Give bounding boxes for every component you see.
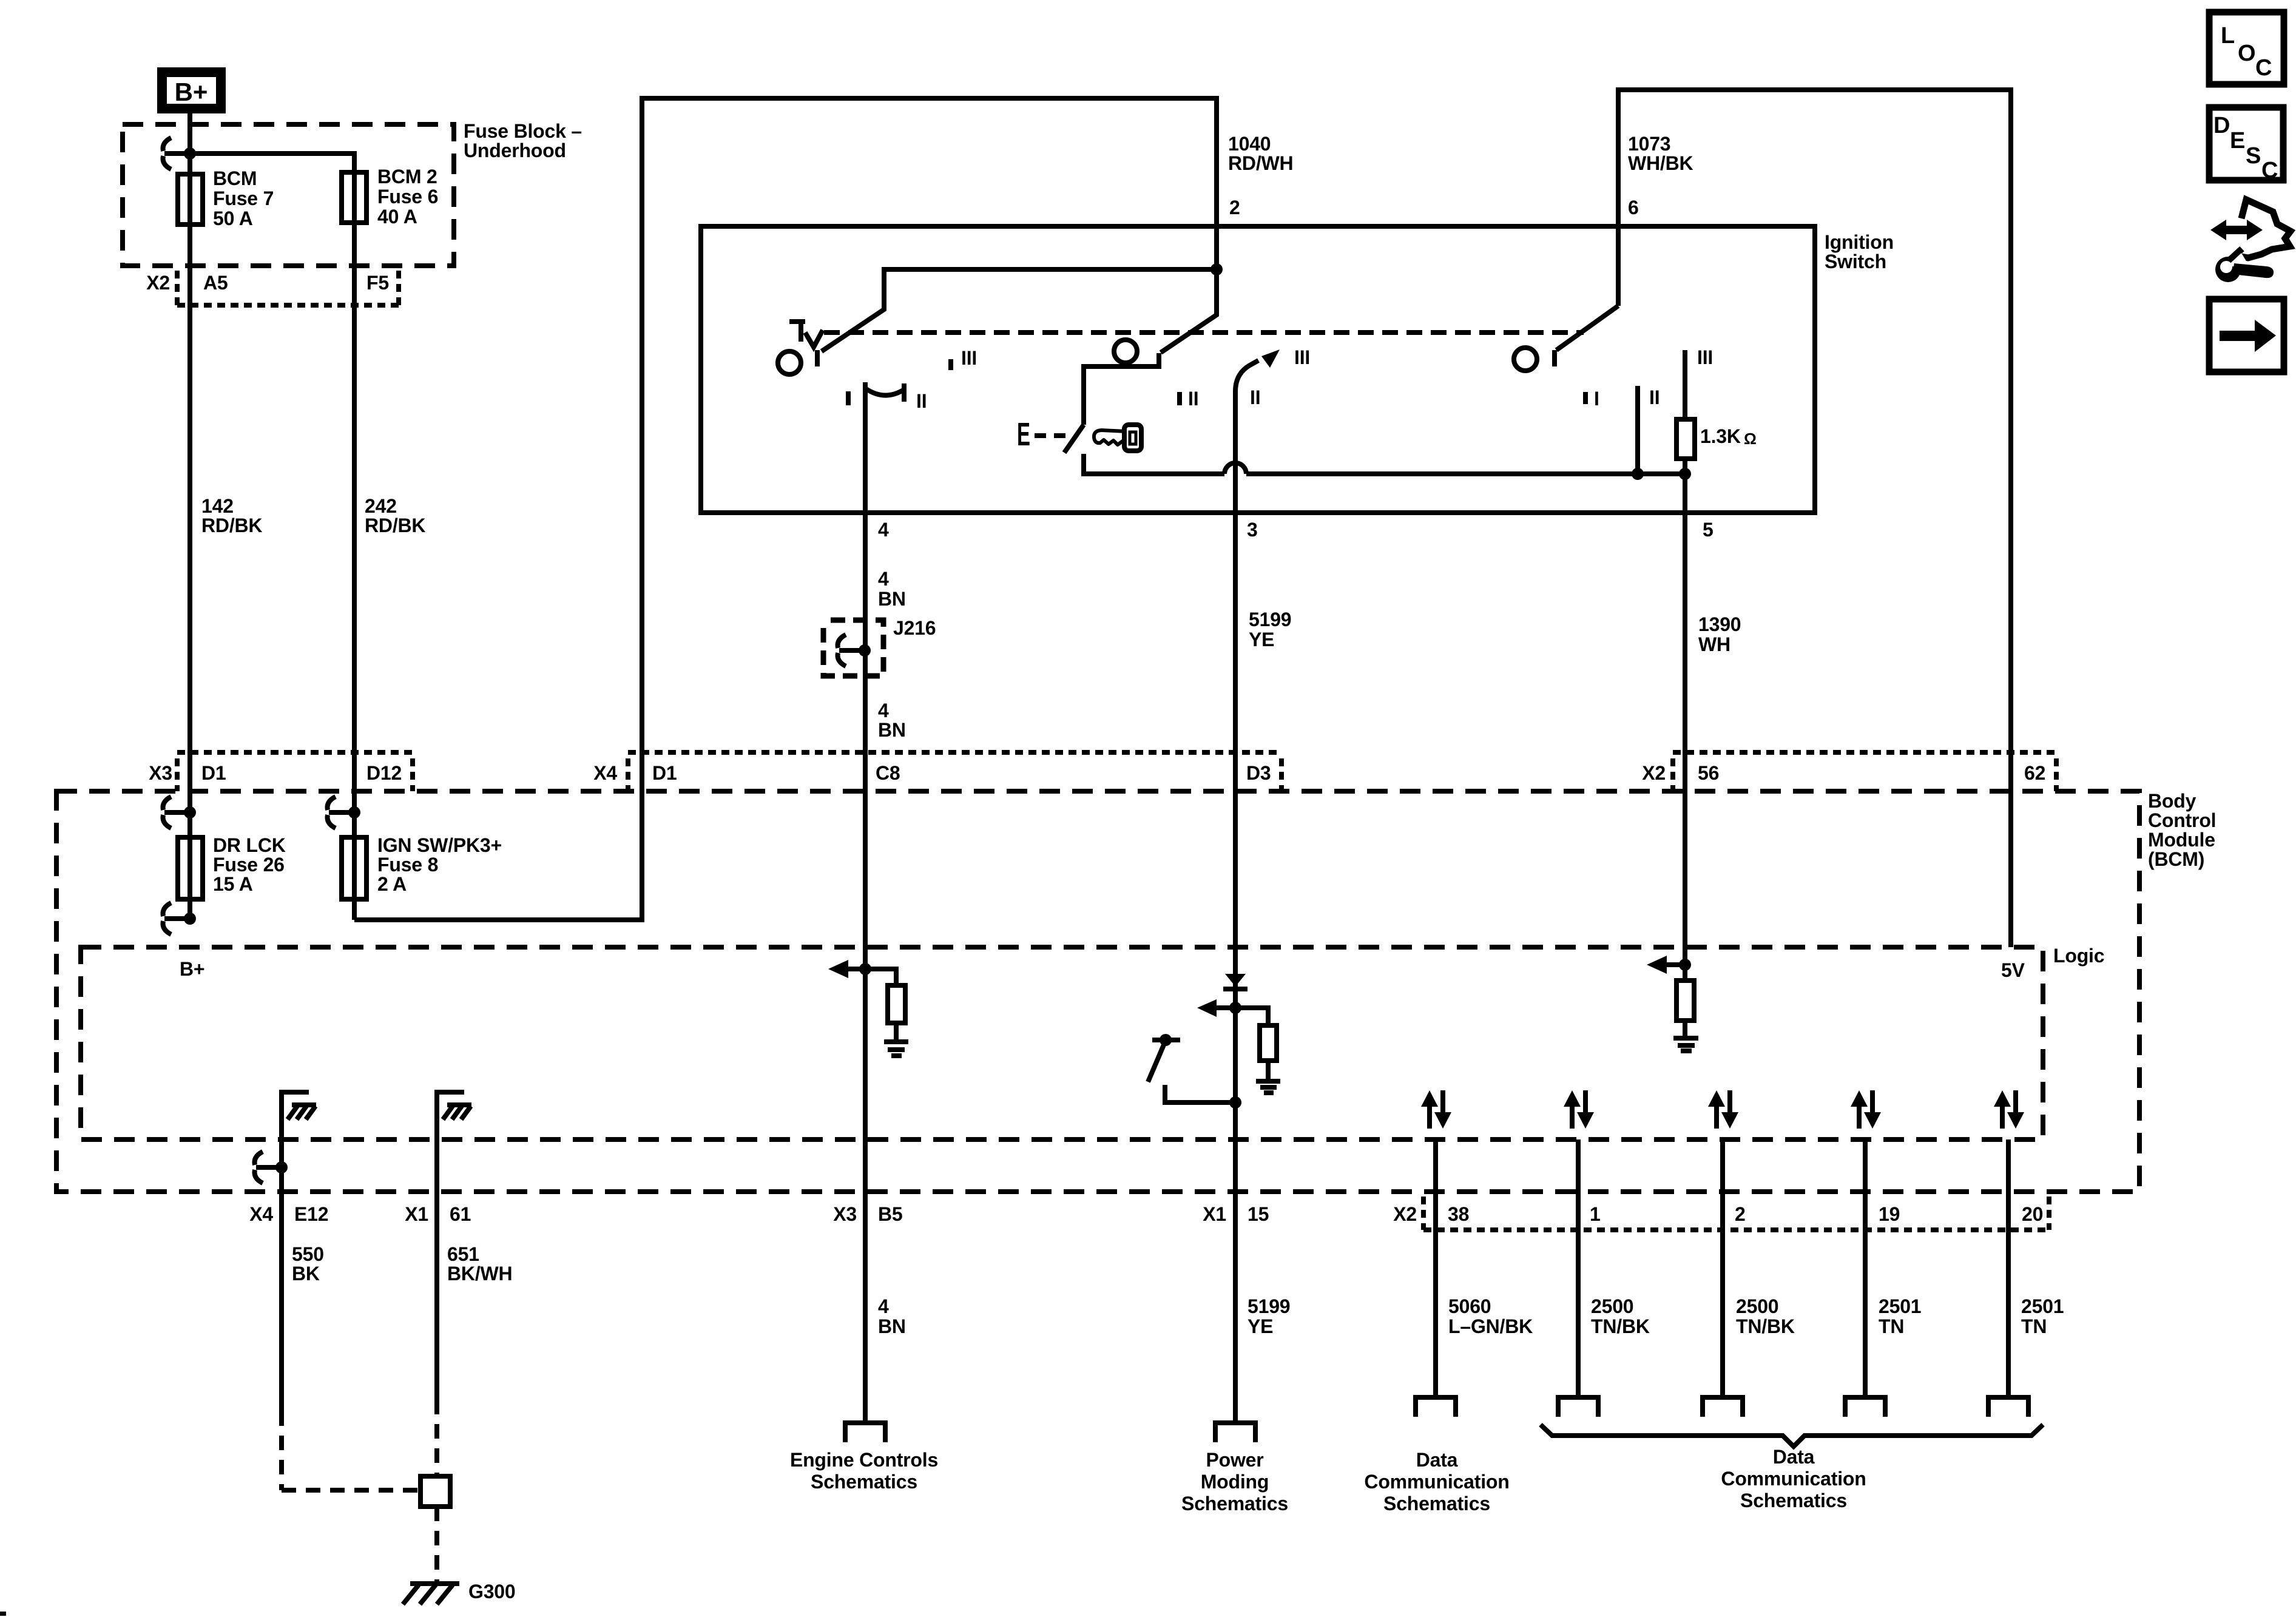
wire B+ to fuse block and down to BCM (circuit 142) [187,113,192,919]
wire ignition switch pin 6 loop to BCM pin 62 (circuit 1073) [1618,90,2011,947]
svg-text:1390: 1390 [1698,613,1741,635]
key icon [1094,425,1141,451]
svg-text:2: 2 [1735,1203,1746,1225]
svg-text:BCM: BCM [213,167,257,189]
svg-text:Power: Power [1206,1449,1263,1471]
svg-text:Fuse 26: Fuse 26 [213,854,285,876]
svg-text:RD/WH: RD/WH [1228,152,1293,174]
off-page connector wire 2 [1703,1397,1743,1417]
svg-text:BN: BN [878,719,906,741]
svg-text:Switch: Switch [1825,251,1886,272]
label Fuse Block Underhood [464,120,582,161]
svg-text:Fuse 6: Fuse 6 [377,186,438,208]
svg-text:X2: X2 [146,272,170,294]
svg-text:X4: X4 [249,1203,273,1225]
icon LOC box [2209,12,2284,84]
svg-text:B+: B+ [175,78,208,106]
bidirectional data arrows pin 20 [1994,1090,2024,1129]
switch S3 arm from wire 6 [1556,306,1618,350]
svg-text:III: III [1697,346,1713,368]
svg-text:Schematics: Schematics [1181,1493,1288,1514]
wire label 1390 WH [1698,613,1741,655]
clip and node above DR LCK fuse [163,797,196,828]
svg-text:III: III [961,347,977,369]
svg-text:X2: X2 [1642,762,1666,784]
svg-text:Fuse 8: Fuse 8 [377,854,438,876]
label Data Communication Schematics (pin 38) [1364,1449,1509,1514]
logic input arrow on wire 4 (pin C8) [828,960,871,978]
svg-text:BN: BN [878,588,906,610]
svg-text:50 A: 50 A [213,208,253,229]
node junction dot resistor on bus [1679,468,1691,480]
svg-text:C: C [2261,158,2278,183]
svg-text:I: I [1594,388,1599,410]
switch S1 fixed contact [815,350,820,366]
switch S1 pivot circle [778,351,801,374]
fuse F6 BCM 2 40A [342,166,438,228]
wire label 142 RD/BK [201,495,262,536]
svg-text:E: E [1017,416,1030,453]
label Data Communication Schematics (serial data) [1721,1446,1866,1511]
position detent arc I-II (S1) [865,382,904,405]
svg-text:C: C [2255,55,2272,81]
node junction dot at B+ branch [184,147,196,160]
label Power Moding Schematics [1181,1449,1288,1514]
fuse F7 BCM 50A [178,167,274,229]
svg-text:IGN SW/PK3+: IGN SW/PK3+ [377,834,502,856]
wire 5 (circuit 1390) down through BCM pin 56 to logic [1683,474,1687,981]
svg-text:D1: D1 [652,762,677,784]
ground (logic, pin 61 wire) [437,1092,471,1139]
svg-text:F5: F5 [366,272,389,294]
svg-text:WH/BK: WH/BK [1628,152,1693,174]
svg-text:Moding: Moding [1201,1471,1269,1493]
ground (logic, wire 4 resistor) [884,1042,908,1056]
svg-text:Communication: Communication [1721,1468,1866,1490]
wire label 5060 L-GN/BK [1448,1295,1533,1337]
svg-text:19: 19 [1879,1203,1900,1225]
wire pin E12 (circuit 550 BK) [282,1139,420,1490]
wire label 1073 WH/BK [1628,133,1693,174]
svg-text:Engine Controls: Engine Controls [790,1449,938,1471]
logic input arrow on wire 5 (pin 56) [1647,956,1691,974]
position label I (S1) [846,391,851,405]
svg-text:Data: Data [1773,1446,1815,1468]
wire pin 20 (circuit 2501) [2006,1139,2011,1396]
svg-text:B5: B5 [878,1203,903,1225]
wire pin 1 (circuit 2500) [1576,1139,1581,1396]
svg-text:Ω: Ω [1744,430,1757,448]
switch S2 pivot circle [1114,340,1137,363]
connector X2 of BCM (pins 56 62) [1642,752,2056,791]
svg-text:C8: C8 [876,762,900,784]
fuse block underhood dashed box [123,124,454,266]
wire label 2500 TN/BK (pin 2) [1736,1295,1795,1337]
svg-text:RD/BK: RD/BK [201,515,262,536]
svg-text:D: D [2213,113,2230,138]
wire resistor to bus [1683,459,1687,474]
svg-text:A5: A5 [203,272,228,294]
svg-text:62: 62 [2024,762,2045,784]
svg-text:YE: YE [1248,1315,1273,1337]
wire 3 (START feed) down through BCM to Power Moding [1233,396,1238,1423]
svg-text:BN: BN [878,1315,906,1337]
svg-text:TN: TN [1879,1315,1904,1337]
svg-text:242: 242 [365,495,397,517]
svg-text:Body: Body [2148,790,2196,812]
svg-text:S: S [2246,143,2261,169]
label Engine Controls Schematics [790,1449,938,1493]
svg-text:15: 15 [1248,1203,1269,1225]
switch S2 fixed contact [1156,353,1161,369]
node junction dot II post on bus [1632,468,1644,480]
off-page connector wire 20 [1988,1397,2028,1417]
svg-text:J216: J216 [893,617,936,639]
connector X2 of BCM bottom (pins 38 1 2 19 20) [1393,1197,2049,1230]
wire from Fuse 8 looping up to ignition switch pin 2 (circuit 1040) [354,98,1217,920]
svg-text:D12: D12 [366,762,402,784]
ignition switch box [701,226,1815,513]
wire 4 (circuit 4 BN) from S1 position II down through BCM to Engine Controls [863,400,868,1423]
svg-text:D1: D1 [201,762,226,784]
wire pin 61 (circuit 651 BK/WH) [434,1139,439,1582]
pull-down resistor on wire 5 [1676,981,1694,1036]
ground (logic, wire 5 resistor) [1673,1038,1698,1051]
svg-text:6: 6 [1628,197,1639,218]
connector X3 of BCM (pins D1 D12) [149,752,413,791]
svg-text:Ignition: Ignition [1825,231,1894,253]
wire label 651 BK/WH [447,1243,512,1284]
svg-text:61: 61 [450,1203,471,1225]
svg-text:II: II [1649,387,1660,408]
svg-text:X1: X1 [1203,1203,1226,1225]
off-page connector wire 5199 [1215,1423,1255,1442]
wire S2 contact to key switch [1084,366,1159,425]
svg-text:Schematics: Schematics [1740,1490,1847,1511]
resistor 1.3K ohm [1676,419,1757,459]
icon service glove with arrow and wrench [2210,200,2291,282]
wire label 4 BN (lower) [878,700,906,741]
pull-down resistor on wire 3 [1235,1008,1277,1079]
wire label 5199 YE [1249,609,1291,650]
svg-text:BK: BK [292,1263,320,1284]
svg-text:1: 1 [1590,1203,1601,1225]
splice J216 [823,617,936,676]
pin label X3 B5 [833,1203,902,1225]
II bus to switch S3 [1246,471,1685,476]
clip and node on pin E12 wire [255,1152,288,1183]
clip and node above Fuse 8 [328,797,360,828]
battery positive terminal B+ box [162,72,221,109]
internal switch to wire 3 [1148,1034,1241,1109]
position label III (S2) with spring-return arrow on wire 3 [1235,346,1310,402]
pin label X1 15 [1203,1203,1269,1225]
svg-text:2: 2 [1229,197,1240,218]
connector X2 of fuse block (pins A5 F5) [146,271,399,305]
svg-text:X1: X1 [405,1203,428,1225]
svg-text:5: 5 [1703,519,1714,541]
position label II (S2 left) [1180,388,1198,410]
wire label 4 BN (bottom) [878,1295,906,1337]
wire label 4 BN (upper) [878,568,906,610]
svg-text:Control: Control [2148,809,2216,831]
wire label 242 RD/BK [365,495,425,536]
svg-text:B+: B+ [180,958,204,980]
svg-text:5199: 5199 [1249,609,1291,630]
wire label 1040 RD/WH [1228,133,1293,174]
pin label X1 61 [405,1203,471,1225]
key switch blade (open) [1064,425,1084,453]
ground (logic, wire 3 resistor) [1256,1081,1280,1093]
switch position dashed line [824,330,1584,335]
svg-text:2501: 2501 [2021,1295,2064,1317]
svg-text:1040: 1040 [1228,133,1271,155]
svg-text:TN: TN [2021,1315,2047,1337]
svg-text:L–GN/BK: L–GN/BK [1448,1315,1533,1337]
wire pin 38 (circuit 5060) [1433,1139,1438,1396]
svg-text:Schematics: Schematics [811,1471,917,1493]
svg-text:2500: 2500 [1591,1295,1633,1317]
svg-text:Module: Module [2148,829,2215,851]
wire label 2501 TN (pin 19) [1879,1295,1921,1337]
label Body Control Module (BCM) [2148,790,2216,870]
svg-text:Data: Data [1416,1449,1458,1471]
svg-text:X3: X3 [833,1203,857,1225]
svg-text:550: 550 [292,1243,324,1265]
wire III contact to resistor [1683,350,1687,419]
svg-text:4: 4 [878,568,889,590]
BCM outer dashed box [56,791,2139,1192]
wire pin 19 (circuit 2501) [1863,1139,1868,1396]
svg-text:TN/BK: TN/BK [1591,1315,1650,1337]
svg-text:BCM 2: BCM 2 [377,166,437,187]
off-page connector wire 5060 [1416,1397,1456,1417]
svg-text:651: 651 [447,1243,479,1265]
svg-text:E12: E12 [294,1203,328,1225]
label Ignition Switch [1825,231,1894,272]
wire label 2500 TN/BK (pin 1) [1591,1295,1650,1337]
svg-text:(BCM): (BCM) [2148,848,2204,870]
svg-text:Fuse Block –: Fuse Block – [464,120,582,142]
svg-text:4: 4 [878,700,889,721]
wire branch to BCM 2 fuse (circuit 242) [190,154,354,920]
svg-text:15 A: 15 A [213,873,253,895]
svg-text:1.3K: 1.3K [1700,425,1741,447]
pin label X4 E12 [249,1203,328,1225]
svg-text:1073: 1073 [1628,133,1670,155]
bidirectional data arrows pin 38 [1421,1090,1451,1129]
svg-text:5V: 5V [2001,959,2025,981]
wire label 2501 TN (pin 20) [2021,1295,2064,1337]
svg-text:3: 3 [1247,519,1258,541]
wire key switch lower contact to II bus [1084,454,1224,474]
icon forward arrow box [2209,299,2284,372]
logic dashed box [81,947,2043,1139]
fuse F26 DR LCK 15A [178,834,286,899]
wire label 550 BK [292,1243,324,1284]
svg-text:40 A: 40 A [377,206,417,228]
ground G300 [403,1581,515,1604]
wire label 5199 YE (bottom) [1248,1295,1290,1337]
svg-text:X2: X2 [1393,1203,1417,1225]
svg-text:5060: 5060 [1448,1295,1491,1317]
svg-text:RD/BK: RD/BK [365,515,425,536]
svg-text:II: II [1188,388,1198,410]
svg-text:II: II [916,390,927,412]
svg-text:38: 38 [1448,1203,1469,1225]
off-page connector wire 19 [1845,1397,1885,1417]
off-page connector wire 4 [845,1423,885,1442]
fuse F8 IGN SW/PK3+ 2A [342,834,502,899]
svg-text:BK/WH: BK/WH [447,1263,512,1284]
position label I (S3) [1585,388,1599,410]
lock position symbol [789,322,805,342]
switch S3 fixed contact [1552,350,1557,366]
svg-text:5199: 5199 [1248,1295,1290,1317]
svg-text:4: 4 [878,519,889,541]
svg-text:Fuse 7: Fuse 7 [213,187,274,209]
switch S1 arm to wire 2 [822,269,1217,351]
svg-text:X4: X4 [593,762,617,784]
svg-text:Communication: Communication [1364,1471,1509,1493]
ground (logic, pin E12 wire) [282,1092,316,1139]
page corner mark [0,1612,6,1616]
svg-text:2501: 2501 [1879,1295,1921,1317]
svg-text:II: II [1250,387,1260,408]
label E with dashes (key out) [1017,416,1066,453]
position label III (S1) [951,347,977,370]
svg-text:142: 142 [201,495,234,517]
svg-text:YE: YE [1249,629,1274,650]
svg-text:2500: 2500 [1736,1295,1778,1317]
switch S3 position II contact post [1635,386,1640,474]
off-page connector wire 1 [1558,1397,1598,1417]
splice box to G300 [420,1476,450,1507]
clip at B+ junction [163,138,171,151]
svg-text:D3: D3 [1246,762,1271,784]
svg-text:20: 20 [2022,1203,2043,1225]
brace grouping serial data wires [1541,1425,2043,1447]
wire pin 2 (circuit 2500) [1720,1139,1725,1396]
bidirectional data arrows pin 1 [1564,1090,1594,1129]
svg-text:III: III [1294,346,1310,368]
diode on wire 3 (pin D3) [1223,974,1248,989]
clip and node below DR LCK fuse [163,903,196,934]
svg-text:Underhood: Underhood [464,140,566,161]
svg-text:G300: G300 [468,1581,515,1602]
svg-text:L: L [2221,23,2235,49]
svg-text:WH: WH [1698,633,1730,655]
pull-down resistor on wire 4 [865,969,905,1040]
svg-text:E: E [2230,128,2245,154]
svg-text:Logic: Logic [2053,945,2104,967]
connector X4 of BCM (pins D1 C8 D3) [593,752,1281,791]
icon DESC box [2209,107,2283,183]
svg-text:TN/BK: TN/BK [1736,1315,1795,1337]
bidirectional data arrows pin 19 [1851,1090,1881,1129]
svg-text:O: O [2238,41,2256,66]
II bus hop over wire 3 [1224,463,1246,474]
svg-text:4: 4 [878,1295,889,1317]
svg-text:56: 56 [1698,762,1719,784]
node junction dot wire 2 and S1 [1210,263,1223,275]
switch S3 pivot circle [1514,348,1537,371]
svg-text:Schematics: Schematics [1383,1493,1490,1514]
logic input arrow on wire 3 [1197,999,1241,1017]
svg-text:DR LCK: DR LCK [213,834,286,856]
svg-text:X3: X3 [149,762,172,784]
bidirectional data arrows pin 2 [1708,1090,1738,1129]
svg-text:2 A: 2 A [377,873,407,895]
switch S2 arm from wire 2 junction [1161,269,1217,353]
